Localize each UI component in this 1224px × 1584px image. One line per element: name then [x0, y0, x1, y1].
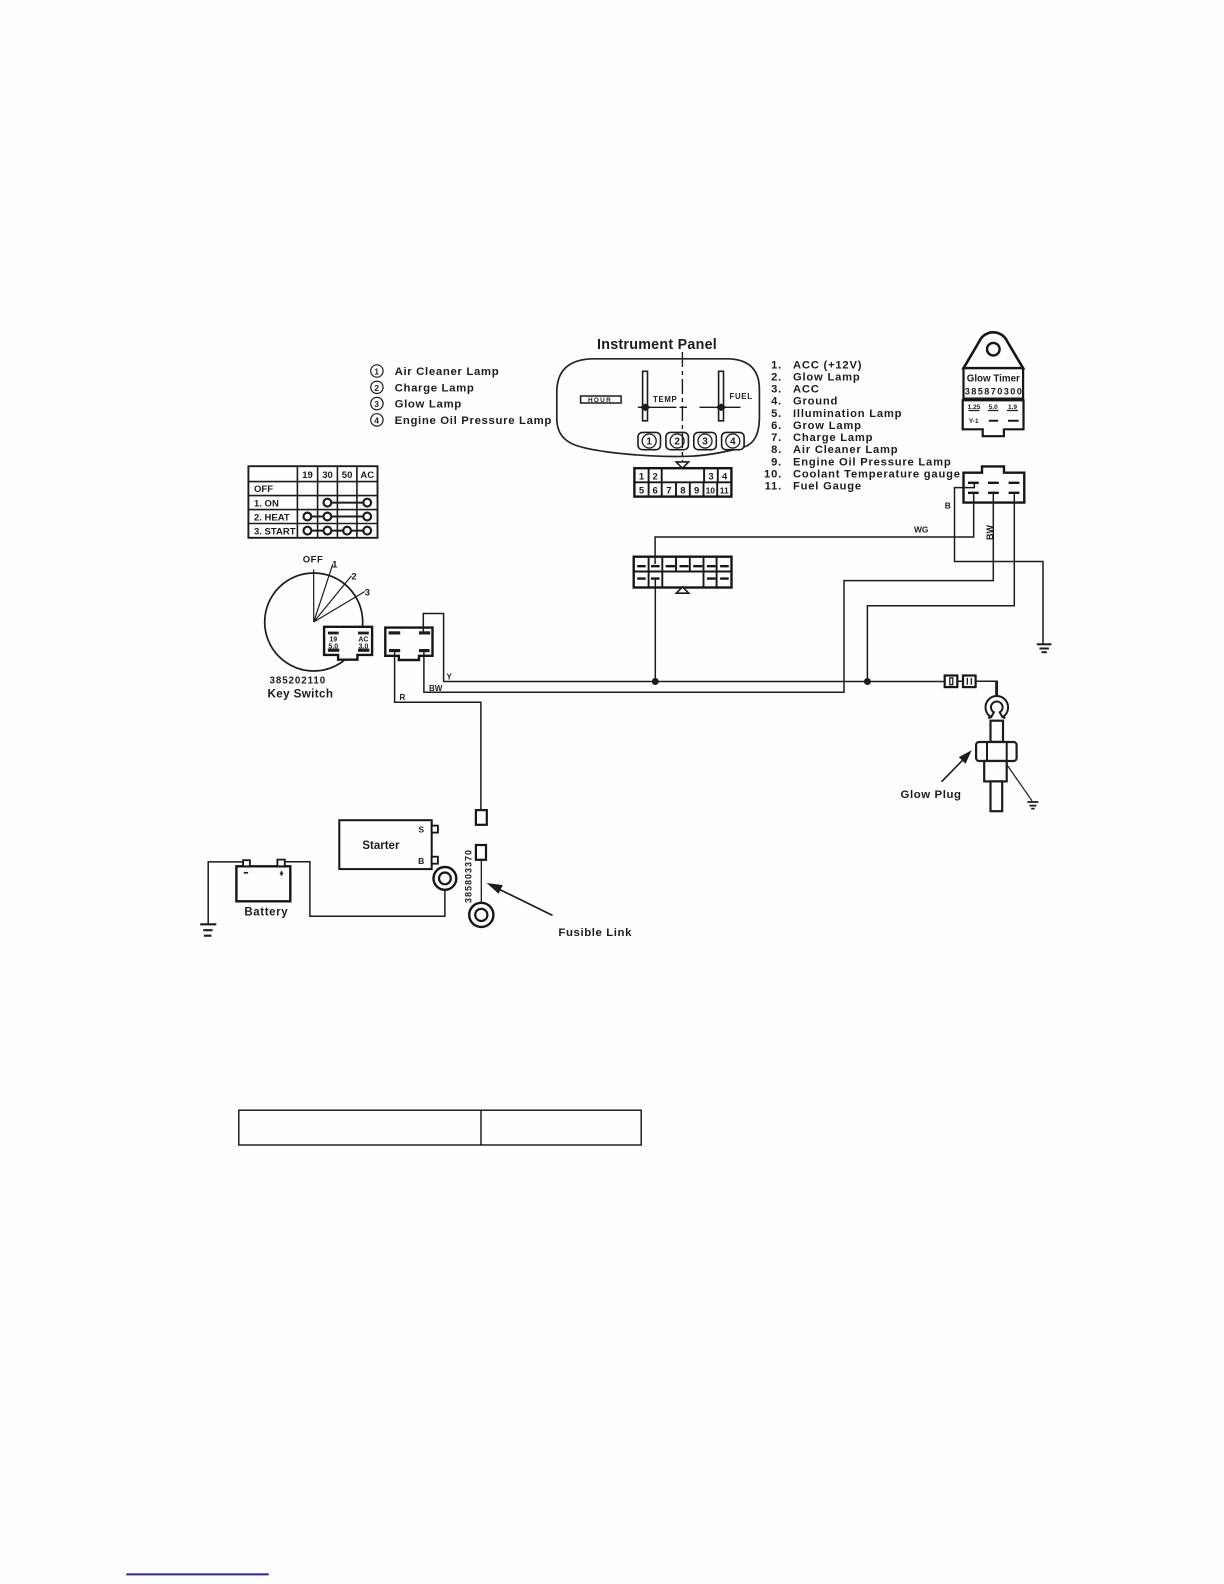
glow plug tip — [991, 781, 1003, 811]
svg-text:2: 2 — [653, 472, 658, 483]
svg-text:WG: WG — [914, 524, 928, 534]
key switch position lines — [314, 564, 365, 622]
svg-text:2: 2 — [374, 383, 379, 393]
callout 2 — [371, 381, 475, 394]
svg-text:6.: 6. — [771, 420, 782, 432]
svg-text:5.0: 5.0 — [328, 643, 338, 650]
svg-text:BW: BW — [985, 525, 995, 540]
svg-text:6: 6 — [653, 486, 658, 497]
svg-text:11.: 11. — [765, 481, 782, 493]
svg-text:ACC: ACC — [793, 384, 820, 396]
svg-text:Battery: Battery — [244, 907, 288, 919]
callout 3 — [371, 397, 462, 410]
starter terminal B tab — [432, 857, 438, 864]
ground: glow plug — [1027, 802, 1038, 809]
svg-text:Ground: Ground — [793, 396, 838, 408]
svg-text:Glow Plug: Glow Plug — [901, 789, 962, 801]
svg-text:Y-1: Y-1 — [969, 418, 979, 425]
svg-text:7.: 7. — [771, 432, 782, 444]
svg-text:Key Switch: Key Switch — [268, 687, 334, 700]
wire: panel connector pin 2 drop to Y junction — [654, 578, 656, 682]
node: Y wire / panel connector junction — [652, 678, 659, 685]
svg-text:4: 4 — [722, 472, 728, 483]
svg-text:385870300: 385870300 — [965, 387, 1024, 397]
wire WG: panel connector pin to glow timer pin 4 — [655, 494, 974, 565]
svg-text:Engine Oil Pressure Lamp: Engine Oil Pressure Lamp — [793, 456, 951, 468]
svg-text:8.: 8. — [771, 444, 782, 456]
key switch mating connector — [385, 628, 432, 660]
indicator lamp box 2 — [666, 432, 689, 449]
svg-text:1: 1 — [646, 437, 652, 448]
svg-text:Coolant Temperature gauge: Coolant Temperature gauge — [793, 469, 961, 481]
svg-text:Charge Lamp: Charge Lamp — [395, 382, 475, 394]
svg-text:FUEL: FUEL — [730, 392, 753, 401]
svg-text:Glow Timer: Glow Timer — [967, 374, 1020, 385]
battery negative post — [243, 860, 250, 866]
connector index triangle — [676, 587, 689, 593]
svg-text:19: 19 — [329, 636, 337, 643]
svg-text:385803370: 385803370 — [464, 849, 474, 903]
svg-text:Air Cleaner Lamp: Air Cleaner Lamp — [395, 366, 500, 378]
svg-text:10: 10 — [706, 486, 716, 496]
fusible link pointer arrow — [487, 883, 553, 915]
svg-text:Glow Lamp: Glow Lamp — [793, 371, 861, 383]
ring terminal at starter B — [434, 867, 457, 890]
svg-text:3: 3 — [374, 399, 379, 409]
svg-text:ACC (+12V): ACC (+12V) — [793, 359, 862, 371]
pointer diamond FUEL — [716, 403, 727, 411]
svg-text:Instrument Panel: Instrument Panel — [597, 337, 717, 353]
indicator lamp box 4 — [722, 432, 745, 449]
glow plug — [976, 696, 1038, 811]
svg-text:10.: 10. — [764, 469, 782, 481]
svg-text:3: 3 — [702, 437, 708, 448]
svg-text:9: 9 — [694, 486, 699, 497]
indicator lamp box 3 — [694, 432, 717, 449]
svg-text:BW: BW — [429, 684, 443, 693]
glow plug body — [984, 761, 1007, 781]
glow plug stud — [991, 721, 1004, 742]
svg-text:19: 19 — [302, 470, 313, 481]
contact row HEAT — [307, 516, 367, 518]
svg-text:5.: 5. — [771, 408, 782, 420]
svg-text:5: 5 — [639, 486, 645, 497]
svg-text:HOUR: HOUR — [588, 397, 612, 404]
battery positive post — [277, 860, 284, 867]
glow plug pointer arrow — [942, 750, 972, 782]
gauge pointer line TEMP — [638, 406, 741, 408]
footer rule (blue) — [126, 1573, 268, 1575]
svg-text:R: R — [400, 693, 406, 702]
instrument panel outline — [557, 359, 760, 457]
svg-text:3.: 3. — [771, 384, 782, 396]
glow timer terminal labels — [968, 404, 1018, 425]
svg-text:Charge Lamp: Charge Lamp — [793, 432, 873, 444]
svg-text:50: 50 — [342, 470, 353, 481]
svg-text:Glow Lamp: Glow Lamp — [395, 399, 462, 411]
inline connector pair on Y wire — [945, 676, 976, 688]
legend right: connector pin list — [764, 359, 961, 492]
wire: glow timer pin 6 to Y junction — [867, 494, 1014, 682]
hour meter — [581, 396, 622, 404]
callout 1 — [371, 365, 500, 378]
temp gauge bar — [643, 371, 648, 421]
svg-text:Fuel Gauge: Fuel Gauge — [793, 481, 862, 493]
glow timer body — [963, 332, 1024, 436]
svg-text:1. ON: 1. ON — [254, 498, 279, 509]
svg-text:Engine Oil Pressure Lamp: Engine Oil Pressure Lamp — [395, 415, 552, 427]
svg-text:3. START: 3. START — [254, 526, 296, 537]
svg-text:4.: 4. — [771, 396, 782, 408]
battery — [236, 860, 290, 902]
arrow to panel connector — [676, 462, 688, 468]
svg-text:Fusible Link: Fusible Link — [558, 927, 632, 939]
starter terminal S tab — [432, 826, 438, 833]
wire: glow plug lead — [995, 681, 997, 697]
contact row ON — [327, 502, 367, 504]
indicator lamp box 1 — [638, 432, 661, 449]
svg-text:3: 3 — [365, 588, 370, 599]
node: Y wire / glow timer junction — [864, 678, 871, 685]
ring terminal at fusible link — [469, 903, 493, 927]
svg-text:9.: 9. — [771, 456, 782, 468]
wire: fusible link to ring terminal — [480, 860, 482, 903]
wire Y: key switch connector to glow plug — [423, 614, 997, 697]
glow plug hex nut — [976, 742, 1017, 761]
pointer diamond TEMP — [640, 403, 651, 411]
svg-text:B: B — [418, 856, 424, 866]
svg-text:1: 1 — [639, 472, 645, 483]
fusible link connector halves — [476, 810, 487, 825]
svg-text:S: S — [418, 825, 424, 835]
svg-text:OFF: OFF — [303, 555, 324, 566]
svg-text:3.0: 3.0 — [359, 643, 369, 650]
svg-text:4: 4 — [374, 415, 379, 425]
glow timer pins row 1 — [968, 482, 1019, 484]
callout 4 — [371, 414, 552, 427]
key switch contact table — [248, 466, 377, 538]
ground: battery — [200, 924, 216, 935]
svg-text:TEMP: TEMP — [653, 395, 677, 404]
svg-text:Illumination Lamp: Illumination Lamp — [793, 408, 902, 420]
svg-text:2: 2 — [674, 437, 680, 448]
glow timer connector — [964, 466, 1025, 502]
svg-text:Air Cleaner Lamp: Air Cleaner Lamp — [793, 444, 898, 456]
wire BW: key switch connector to glow timer pin 5 — [424, 494, 993, 693]
svg-text:8: 8 — [680, 486, 685, 497]
svg-text:1: 1 — [332, 560, 338, 571]
svg-text:Y: Y — [447, 672, 453, 681]
svg-text:2: 2 — [351, 572, 356, 583]
harness connector (mating, below panel connector) — [634, 557, 732, 588]
fuel gauge bar — [719, 371, 724, 421]
panel connector (numbered 1-11) — [634, 468, 731, 496]
svg-text:AC: AC — [360, 470, 374, 481]
svg-text:7: 7 — [666, 486, 671, 497]
wire: battery positive to starter ring terminal — [285, 862, 445, 917]
wire B: glow timer pin 1 to ground — [955, 483, 1044, 644]
svg-text:4: 4 — [730, 437, 736, 448]
svg-text:Grow Lamp: Grow Lamp — [793, 420, 862, 432]
legend left: lamp callouts — [371, 365, 552, 427]
svg-text:AC: AC — [358, 636, 368, 643]
svg-text:30: 30 — [322, 470, 333, 481]
glow plug terminal ring — [986, 696, 1009, 717]
empty revision table — [239, 1110, 641, 1145]
svg-text:385202110: 385202110 — [270, 675, 327, 686]
svg-text:2. HEAT: 2. HEAT — [254, 512, 290, 523]
wire: battery negative to ground — [208, 862, 243, 924]
key switch connector (19/AC) — [324, 627, 372, 660]
svg-text:1: 1 — [374, 367, 379, 377]
svg-text:11: 11 — [720, 486, 729, 496]
svg-text:OFF: OFF — [254, 484, 273, 495]
svg-text:Starter: Starter — [362, 840, 400, 852]
panel centerline dashed — [681, 352, 683, 461]
ground: glow timer — [1037, 643, 1052, 645]
svg-text:B: B — [945, 501, 951, 511]
svg-text:1.: 1. — [771, 359, 782, 371]
wire R: key switch connector to fusible link — [395, 652, 481, 811]
glow plug body ground lead — [1007, 765, 1032, 801]
contact row START — [307, 530, 367, 532]
key switch body circle — [265, 573, 363, 671]
starter — [339, 820, 438, 869]
glow timer pins row 2 — [968, 492, 1019, 494]
svg-text:3: 3 — [708, 472, 713, 483]
svg-text:2.: 2. — [771, 371, 782, 383]
